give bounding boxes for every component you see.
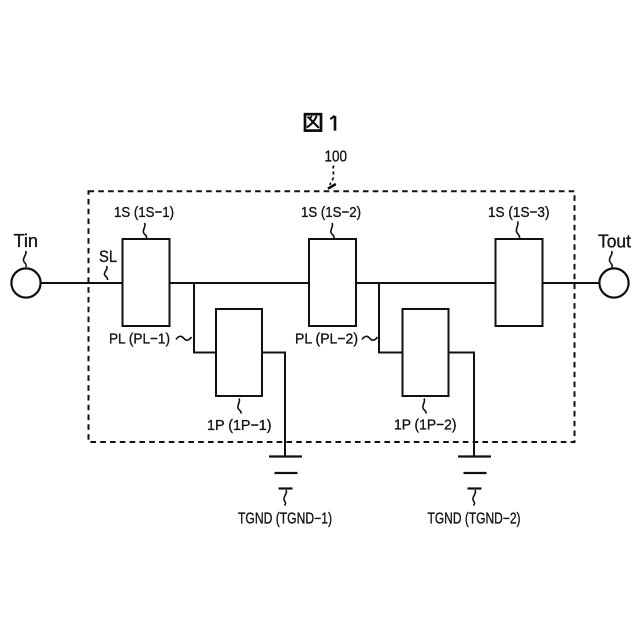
wire SL main line	[41, 282, 599, 284]
svg-text:1S (1S−3): 1S (1S−3)	[488, 204, 550, 221]
svg-text:1S (1S−1): 1S (1S−1)	[114, 204, 174, 221]
leader squiggle 1S-3	[516, 222, 519, 239]
leader squiggle 1S-1	[143, 223, 146, 238]
wire 1P-2 to ground TGND-2	[449, 353, 475, 457]
leader squiggle Tout	[609, 251, 612, 268]
svg-text:1S (1S−2): 1S (1S−2)	[301, 204, 361, 221]
title numeral 1	[330, 116, 335, 131]
leader squiggle 1P-2	[423, 399, 426, 414]
leader squiggle TGND-1	[284, 490, 287, 506]
leader squiggle TGND-2	[473, 490, 476, 506]
leader tilde PL-1	[176, 336, 192, 340]
ground TGND-2	[458, 457, 491, 489]
leader squiggle SL	[104, 266, 107, 280]
dashed box 100 boundary	[89, 191, 575, 442]
leader squiggle 1P-1	[238, 399, 241, 414]
figure title 図 1	[305, 114, 321, 130]
svg-text:TGND (TGND−2): TGND (TGND−2)	[428, 511, 521, 528]
wire branch to 1P-1	[194, 283, 216, 353]
leader tilde PL-2	[362, 336, 378, 340]
svg-text:TGND (TGND−1): TGND (TGND−1)	[238, 511, 332, 528]
svg-text:SL: SL	[99, 248, 117, 266]
svg-text:PL (PL−2): PL (PL−2)	[295, 331, 358, 348]
resonator 1S-2	[309, 239, 356, 326]
svg-text:Tin: Tin	[14, 231, 39, 251]
svg-text:1P (1P−2): 1P (1P−2)	[394, 417, 457, 434]
wire 1P-1 to ground TGND-1	[262, 353, 285, 457]
terminal Tin	[11, 268, 40, 297]
resonator 1S-1	[123, 239, 170, 326]
svg-text:Tout: Tout	[598, 232, 631, 252]
svg-text:100: 100	[325, 149, 348, 166]
resonator 1P-2	[403, 309, 449, 396]
svg-text:PL (PL−1): PL (PL−1)	[109, 331, 170, 348]
resonator 1P-1	[216, 309, 262, 396]
leader arrow from 100 to dashed box	[329, 166, 335, 189]
terminal Tout	[599, 268, 628, 297]
ground TGND-1	[269, 457, 302, 489]
resonator 1S-3	[496, 239, 543, 326]
wire branch to 1P-2	[379, 283, 403, 353]
leader squiggle Tin	[23, 251, 26, 267]
leader squiggle 1S-2	[331, 223, 334, 238]
svg-text:1P (1P−1): 1P (1P−1)	[207, 417, 272, 434]
